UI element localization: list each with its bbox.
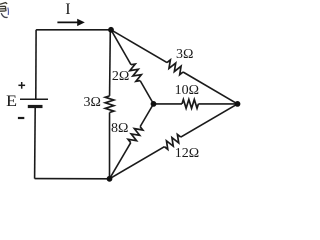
current arrow I <box>57 21 78 23</box>
battery E positive plate <box>20 98 48 100</box>
resistor 2ohm <box>130 64 142 81</box>
label 12 ohm <box>175 147 199 161</box>
battery E negative plate <box>28 105 43 108</box>
wire top from battery to top node, with current direction <box>36 29 111 31</box>
wire bottom from battery to bottom node <box>35 178 110 180</box>
resistor 12ohm <box>164 134 180 149</box>
wire left vertical upper (battery + terminal to top wire) <box>35 30 37 99</box>
node right junction dot <box>235 101 241 107</box>
wire from top node down to bottom node (left branch) <box>109 30 112 96</box>
wire from bottom node to right node <box>110 147 165 179</box>
wire from bottom node to center node <box>110 143 131 179</box>
label 8 ohm <box>111 122 128 136</box>
resistor 8ohm <box>128 127 143 143</box>
wire from top node to center node <box>111 30 131 65</box>
wire from top node to right node <box>111 30 167 63</box>
wire left vertical lower (battery - terminal to bottom wire) <box>34 107 37 179</box>
battery minus sign <box>18 117 24 119</box>
node top junction dot <box>108 27 114 33</box>
node center junction dot <box>151 101 157 107</box>
partial CJK character fragment top-left corner <box>0 3 8 18</box>
battery plus sign <box>18 84 25 86</box>
label 10 ohm <box>175 84 199 98</box>
label E battery <box>6 94 17 110</box>
wire from center node to right node <box>154 103 183 105</box>
label I current <box>65 2 70 18</box>
resistor 10ohm <box>182 100 198 109</box>
node bottom junction dot <box>107 176 113 182</box>
label 3 ohm top right <box>176 48 193 62</box>
resistor 3ohm top right <box>167 60 183 75</box>
label 3 ohm left <box>84 96 101 110</box>
resistor 3ohm left vertical <box>105 96 114 113</box>
label 2 ohm <box>112 70 129 84</box>
